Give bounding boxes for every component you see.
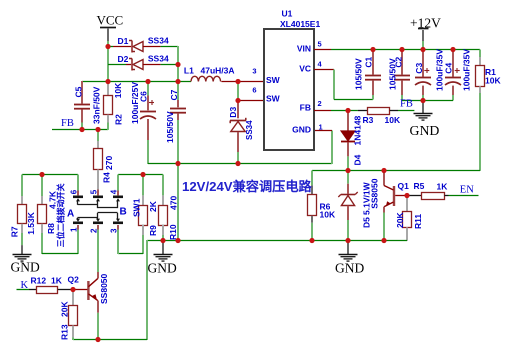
- svg-text:C4: C4: [443, 63, 453, 74]
- svg-text:C2: C2: [394, 56, 404, 67]
- svg-text:L1: L1: [184, 66, 194, 76]
- svg-text:1K: 1K: [437, 182, 449, 192]
- svg-text:U1: U1: [282, 9, 293, 19]
- svg-text:Q2: Q2: [68, 275, 80, 285]
- svg-text:R11: R11: [413, 214, 423, 229]
- svg-text:A: A: [67, 209, 74, 220]
- svg-text:10K: 10K: [485, 76, 501, 86]
- svg-text:2K: 2K: [148, 200, 158, 212]
- svg-text:D4: D4: [353, 154, 363, 165]
- svg-text:EN: EN: [460, 184, 474, 195]
- svg-text:1N4148: 1N4148: [353, 115, 363, 145]
- svg-text:12V/24V兼容调压电路: 12V/24V兼容调压电路: [182, 178, 313, 194]
- svg-text:470: 470: [169, 196, 179, 210]
- svg-text:100uF/35V: 100uF/35V: [461, 49, 471, 91]
- svg-text:20K: 20K: [395, 212, 405, 228]
- svg-text:2: 2: [318, 99, 322, 108]
- svg-text:6: 6: [252, 86, 256, 95]
- svg-text:R7: R7: [10, 226, 20, 237]
- svg-text:47uH/3A: 47uH/3A: [201, 66, 235, 76]
- svg-text:20K: 20K: [60, 301, 70, 317]
- svg-text:1: 1: [319, 123, 323, 132]
- svg-text:D2: D2: [118, 54, 129, 64]
- svg-text:SS34: SS34: [148, 36, 169, 46]
- svg-text:XL4015E1: XL4015E1: [280, 19, 320, 29]
- svg-text:270: 270: [104, 156, 114, 170]
- svg-text:5: 5: [318, 40, 322, 49]
- svg-text:D3: D3: [228, 107, 238, 118]
- svg-text:1: 1: [69, 227, 78, 232]
- svg-text:SW: SW: [266, 93, 281, 103]
- svg-text:4: 4: [109, 189, 118, 194]
- svg-text:D5: D5: [361, 217, 371, 228]
- svg-text:33nF/50V: 33nF/50V: [92, 86, 102, 124]
- svg-text:C3: C3: [414, 63, 424, 74]
- svg-text:R4: R4: [102, 172, 112, 183]
- svg-text:105/50V: 105/50V: [165, 111, 175, 143]
- svg-text:6: 6: [69, 189, 78, 194]
- svg-text:SW1: SW1: [132, 198, 142, 217]
- svg-text:VC: VC: [299, 64, 311, 74]
- svg-text:105/50V: 105/50V: [354, 58, 364, 90]
- svg-text:GND: GND: [292, 125, 311, 135]
- svg-text:GND: GND: [335, 261, 364, 276]
- svg-text:3: 3: [252, 67, 256, 76]
- svg-text:Q1: Q1: [398, 181, 410, 191]
- svg-text:1.53K: 1.53K: [26, 211, 36, 235]
- svg-text:GND: GND: [11, 260, 40, 275]
- svg-text:C5: C5: [74, 86, 84, 97]
- svg-text:R12: R12: [31, 276, 47, 286]
- svg-text:FB: FB: [61, 118, 74, 129]
- svg-text:R2: R2: [114, 114, 124, 125]
- svg-text:GND: GND: [148, 261, 177, 276]
- svg-text:3: 3: [109, 228, 118, 233]
- svg-text:R13: R13: [60, 324, 70, 340]
- svg-text:SS34: SS34: [148, 54, 169, 64]
- svg-text:B: B: [120, 207, 127, 218]
- svg-text:SS8050: SS8050: [369, 178, 379, 209]
- svg-text:2: 2: [89, 228, 98, 233]
- svg-text:C1: C1: [363, 56, 373, 67]
- svg-text:C6: C6: [139, 91, 149, 102]
- svg-text:C7: C7: [169, 89, 179, 100]
- svg-text:5: 5: [89, 189, 98, 194]
- svg-text:R3: R3: [363, 115, 374, 125]
- svg-text:三位二档拨动开关: 三位二档拨动开关: [56, 183, 66, 247]
- svg-text:GND: GND: [410, 123, 440, 138]
- svg-text:R9: R9: [148, 225, 158, 236]
- svg-text:10K: 10K: [320, 210, 336, 220]
- svg-text:R5: R5: [414, 181, 425, 191]
- svg-text:SW: SW: [266, 75, 281, 85]
- svg-text:R8: R8: [46, 223, 56, 234]
- svg-text:10K: 10K: [385, 115, 401, 125]
- svg-text:FB: FB: [300, 102, 311, 112]
- svg-text:VCC: VCC: [97, 13, 124, 28]
- svg-text:1K: 1K: [51, 276, 63, 286]
- svg-text:FB: FB: [400, 99, 413, 110]
- svg-text:10K: 10K: [113, 82, 123, 98]
- svg-text:SS34: SS34: [245, 120, 254, 140]
- svg-text:VIN: VIN: [297, 43, 311, 53]
- svg-text:R10: R10: [168, 224, 178, 240]
- svg-text:SS8050: SS8050: [99, 273, 109, 304]
- svg-text:D1: D1: [118, 36, 129, 46]
